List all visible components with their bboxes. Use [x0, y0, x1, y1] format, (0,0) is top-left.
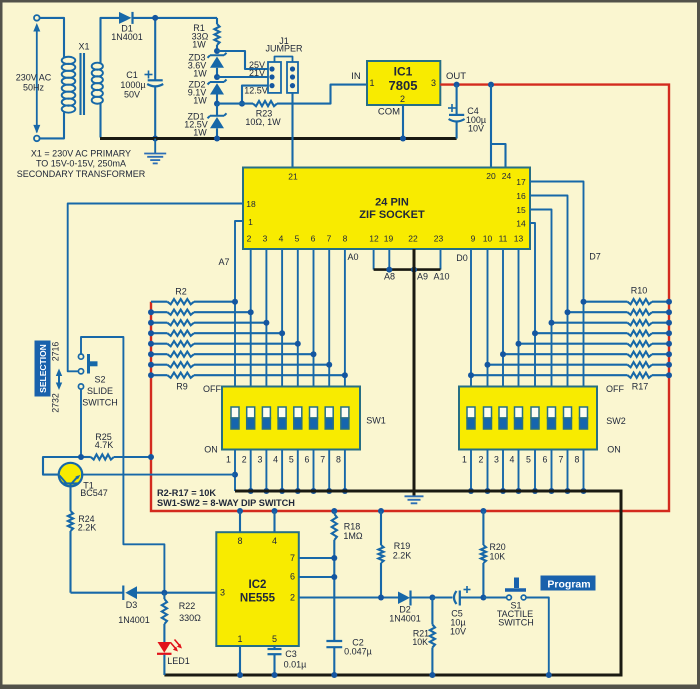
- wire ground rect: [164, 491, 621, 675]
- transistor T1 BC547: [59, 463, 108, 511]
- junction C2 rail: [331, 672, 337, 678]
- svg-text:1N4001: 1N4001: [111, 32, 143, 42]
- resistor R20: [481, 511, 506, 598]
- wire IC2 pin8: [239, 511, 241, 532]
- svg-text:TO 15V-0-15V, 250mA: TO 15V-0-15V, 250mA: [36, 158, 126, 168]
- svg-text:5: 5: [289, 455, 294, 465]
- wire 21V tap: [217, 76, 268, 78]
- svg-text:10: 10: [483, 234, 493, 244]
- wire 25V tap: [217, 51, 268, 69]
- ZIF pin numbers: [246, 171, 526, 244]
- junction C1 bottom: [152, 136, 158, 142]
- label SW1: [366, 416, 386, 426]
- junction 12.5V tap: [239, 101, 245, 107]
- svg-text:R2-R17 = 10K: R2-R17 = 10K: [157, 488, 216, 498]
- capacitor C2: [326, 638, 371, 676]
- capacitor C1: [120, 18, 163, 139]
- junction A9: [411, 267, 417, 273]
- svg-text:6: 6: [305, 455, 310, 465]
- resistor array R10-R17: [471, 299, 669, 378]
- svg-text:1W: 1W: [193, 96, 207, 106]
- svg-text:3: 3: [220, 588, 225, 598]
- diode D1: [111, 12, 143, 42]
- junction A8: [386, 267, 392, 273]
- wire top terminal to primary: [40, 18, 64, 58]
- transformer X1: [62, 42, 103, 116]
- svg-text:10V: 10V: [468, 124, 484, 134]
- junction S1 rail: [546, 672, 552, 678]
- wire secondary top to D1: [101, 18, 120, 64]
- switch SW2 8-way DIP: [459, 387, 597, 465]
- label 25V: [249, 60, 265, 70]
- junction ZD1 bottom: [214, 136, 220, 142]
- wire ZIF pin23 stub: [440, 249, 442, 270]
- svg-text:16: 16: [516, 191, 526, 201]
- label SELECTION box: [35, 341, 50, 396]
- wire Vcc to ZIF pins 20 24: [491, 85, 506, 168]
- svg-text:5: 5: [295, 234, 300, 244]
- junctions R2-R9 to columns: [232, 299, 348, 379]
- wire ZIF pin19 stub: [388, 249, 390, 270]
- svg-text:7: 7: [320, 455, 325, 465]
- svg-text:4: 4: [510, 455, 515, 465]
- diode D2: [389, 591, 432, 624]
- svg-text:8: 8: [343, 234, 348, 244]
- label A8: [384, 272, 395, 282]
- svg-text:SW2: SW2: [606, 416, 626, 426]
- resistor R1: [192, 18, 220, 51]
- zener ZD1: [184, 104, 226, 139]
- label ON SW1: [204, 445, 218, 455]
- junctions SW2 rail: [468, 488, 587, 494]
- svg-text:2: 2: [290, 593, 295, 603]
- junction D3 R22: [161, 590, 167, 596]
- label R2-R17 note: [157, 488, 216, 498]
- resistor array R2-R9: [151, 299, 345, 378]
- svg-text:IN: IN: [351, 71, 361, 82]
- svg-text:7: 7: [327, 234, 332, 244]
- wire D1 to R1: [133, 17, 218, 19]
- svg-text:3: 3: [431, 78, 436, 88]
- resistor R25: [43, 432, 151, 475]
- svg-text:8: 8: [575, 455, 580, 465]
- selection arrow: [56, 369, 62, 391]
- label SW2: [606, 416, 626, 426]
- wire J1 to ZIF pin 21: [291, 93, 293, 168]
- svg-text:9: 9: [471, 234, 476, 244]
- jumper J1: [265, 36, 303, 93]
- wire IC2 pin6: [299, 576, 335, 578]
- wire ZIF pin12 stub: [373, 249, 375, 270]
- junctions red rail: [237, 508, 486, 514]
- regulator IC1 7805: [351, 61, 466, 118]
- switch SW1 8-way DIP: [222, 387, 360, 465]
- svg-text:R20: R20: [490, 542, 506, 552]
- resistor R23: [217, 85, 367, 127]
- svg-text:JUMPER: JUMPER: [265, 44, 303, 54]
- diode D3: [71, 586, 217, 626]
- svg-text:LED1: LED1: [167, 656, 190, 666]
- label SW note: [157, 498, 295, 508]
- label D0: [456, 253, 468, 263]
- svg-text:A7: A7: [218, 257, 229, 267]
- capacitor C4: [448, 85, 486, 139]
- svg-text:2716: 2716: [51, 342, 61, 362]
- svg-text:50V: 50V: [124, 90, 140, 100]
- svg-text:3: 3: [263, 234, 268, 244]
- svg-text:10V: 10V: [450, 627, 466, 637]
- resistor R24: [68, 511, 96, 593]
- wire T1 emitter: [81, 474, 235, 476]
- svg-text:ZIF SOCKET: ZIF SOCKET: [359, 209, 425, 221]
- svg-text:A10: A10: [433, 272, 449, 282]
- svg-text:20: 20: [486, 171, 496, 181]
- svg-text:D3: D3: [126, 600, 138, 610]
- svg-text:R19: R19: [394, 541, 411, 551]
- wire data columns bottom pins: [471, 249, 519, 387]
- svg-text:3: 3: [257, 455, 262, 465]
- svg-text:R18: R18: [344, 522, 361, 532]
- svg-text:24: 24: [502, 171, 512, 181]
- wire Vcc red net: [151, 85, 669, 511]
- svg-text:7: 7: [290, 553, 295, 563]
- svg-text:1W: 1W: [193, 128, 207, 138]
- junction R25 red rail: [148, 454, 154, 460]
- svg-text:11: 11: [499, 234, 508, 244]
- wire S2 top to D3 junction: [81, 337, 164, 593]
- wire 0V rail upper: [100, 137, 457, 140]
- svg-text:13: 13: [514, 234, 524, 244]
- switch S2 slide: [78, 354, 117, 408]
- ground pin22: [405, 496, 424, 503]
- svg-text:2.2K: 2.2K: [393, 551, 412, 561]
- junction R1 bottom: [214, 48, 220, 54]
- svg-text:23: 23: [434, 234, 444, 244]
- svg-text:1000µ: 1000µ: [120, 80, 145, 90]
- junction ZD2 ZD1: [214, 101, 220, 107]
- 230V AC mains arrow: [16, 23, 52, 133]
- label R2: [175, 287, 187, 297]
- junction pin7 R18: [331, 555, 337, 561]
- label 21V: [249, 68, 265, 78]
- svg-text:15: 15: [516, 205, 526, 215]
- label Program box: [541, 576, 595, 591]
- label R17: [632, 382, 649, 392]
- svg-text:NE555: NE555: [240, 593, 276, 605]
- svg-text:1N4001: 1N4001: [389, 614, 421, 624]
- wire ZIF pin1 to A7 column: [235, 221, 243, 302]
- led LED1: [157, 640, 190, 676]
- svg-text:Program: Program: [547, 579, 590, 591]
- svg-text:SWITCH: SWITCH: [82, 398, 118, 408]
- junction R20 pin2: [480, 595, 486, 601]
- svg-text:SLIDE: SLIDE: [87, 386, 113, 396]
- junction OUT ZIF supply: [488, 82, 494, 88]
- svg-text:R9: R9: [176, 382, 188, 392]
- svg-text:3: 3: [494, 455, 499, 465]
- svg-text:ON: ON: [204, 445, 218, 455]
- svg-text:X1: X1: [78, 42, 89, 52]
- wire IC2 pin2 row: [299, 596, 398, 598]
- svg-text:10K: 10K: [412, 637, 428, 647]
- svg-text:1: 1: [237, 634, 242, 644]
- svg-text:0.01µ: 0.01µ: [284, 660, 307, 670]
- svg-text:D0: D0: [456, 253, 468, 263]
- ground under C1: [144, 139, 166, 164]
- svg-text:18: 18: [246, 199, 256, 209]
- svg-text:5: 5: [272, 634, 277, 644]
- junction R21 rail: [429, 672, 435, 678]
- svg-text:8: 8: [336, 455, 341, 465]
- svg-text:OFF: OFF: [203, 384, 221, 394]
- svg-text:A0: A0: [347, 252, 358, 262]
- wire ZIF pin15 route: [530, 210, 552, 387]
- label 2732: [51, 393, 61, 413]
- wire IC2 pin1: [239, 646, 241, 675]
- junction COM rail: [400, 136, 406, 142]
- svg-text:19: 19: [384, 234, 394, 244]
- svg-text:6: 6: [311, 234, 316, 244]
- capacitor C3: [268, 646, 307, 675]
- junction D2 R21: [429, 595, 435, 601]
- svg-text:5: 5: [526, 455, 531, 465]
- label A10: [433, 272, 449, 282]
- label 2716: [51, 342, 61, 362]
- svg-text:10Ω, 1W: 10Ω, 1W: [245, 117, 281, 127]
- svg-text:BC547: BC547: [80, 488, 108, 498]
- svg-text:2: 2: [400, 94, 405, 104]
- svg-text:50Hz: 50Hz: [23, 83, 45, 93]
- wire IC2 pin4: [273, 511, 275, 532]
- svg-text:6: 6: [290, 572, 295, 582]
- resistor R18: [332, 511, 363, 641]
- label OFF SW1: [203, 384, 221, 394]
- wire ZIF pin16 route: [530, 196, 568, 387]
- wire SW2 bottom stubs: [471, 450, 584, 492]
- label A9: [417, 272, 428, 282]
- svg-text:C1: C1: [126, 70, 138, 80]
- ic ZIF socket: [243, 168, 530, 250]
- node AC input terminal top: [34, 15, 40, 21]
- wire ZIF pin22 to ground: [413, 249, 416, 496]
- svg-text:D7: D7: [589, 252, 601, 262]
- zener ZD2: [188, 80, 227, 106]
- wire ZIF pin17 route: [530, 182, 584, 387]
- svg-text:7: 7: [559, 455, 564, 465]
- svg-text:X1 = 230V AC PRIMARY: X1 = 230V AC PRIMARY: [31, 148, 131, 158]
- svg-text:4: 4: [272, 536, 277, 546]
- junctions SW1 rail: [248, 488, 348, 494]
- label D7: [589, 252, 601, 262]
- wire address columns: [251, 249, 345, 375]
- junction C3 rail: [272, 672, 278, 678]
- junction R19 pin2: [378, 595, 384, 601]
- label 12.5V: [244, 86, 268, 96]
- wire A8 A9 A10 bracket: [374, 268, 441, 271]
- svg-text:24 PIN: 24 PIN: [375, 197, 409, 209]
- svg-text:230V AC: 230V AC: [16, 73, 52, 83]
- wire COM to 0V rail: [402, 105, 404, 139]
- svg-text:A8: A8: [384, 272, 395, 282]
- junction pin1 rail: [237, 672, 243, 678]
- capacitor C5: [432, 586, 483, 637]
- label ON SW2: [607, 445, 621, 455]
- junction pin6 R18: [331, 574, 337, 580]
- svg-text:2: 2: [247, 234, 252, 244]
- label OFF SW2: [606, 384, 624, 394]
- svg-text:2.2K: 2.2K: [78, 523, 97, 533]
- label A0: [347, 252, 358, 262]
- wire bottom terminal to primary: [40, 113, 64, 139]
- svg-text:4.7K: 4.7K: [95, 440, 114, 450]
- svg-text:2: 2: [479, 455, 484, 465]
- svg-text:12: 12: [369, 234, 379, 244]
- svg-text:R10: R10: [631, 286, 648, 296]
- junction T1 emitter column: [232, 472, 238, 478]
- resistor R21: [412, 598, 435, 676]
- svg-text:SWITCH: SWITCH: [498, 618, 534, 628]
- svg-text:S2: S2: [94, 375, 105, 385]
- svg-text:0.047µ: 0.047µ: [344, 647, 372, 657]
- junction C1 top: [152, 15, 158, 21]
- label R9: [176, 382, 188, 392]
- svg-text:1MΩ: 1MΩ: [343, 531, 363, 541]
- svg-text:ON: ON: [607, 445, 621, 455]
- svg-text:1N4001: 1N4001: [118, 615, 150, 625]
- svg-text:2732: 2732: [51, 393, 61, 413]
- wire S2 bottom to R25: [80, 389, 82, 457]
- svg-text:R22: R22: [179, 601, 196, 611]
- svg-text:IC1: IC1: [394, 65, 413, 79]
- junction R25 S2: [78, 454, 84, 460]
- svg-text:2: 2: [242, 455, 247, 465]
- switch S1 tactile: [483, 578, 533, 628]
- svg-text:10K: 10K: [490, 552, 506, 562]
- label transformer spec: [17, 148, 146, 179]
- svg-text:A9: A9: [417, 272, 428, 282]
- svg-text:1W: 1W: [192, 40, 206, 50]
- wire address columns to SW1: [235, 302, 345, 387]
- svg-text:1: 1: [462, 455, 467, 465]
- wire SW1 column1 stub: [234, 450, 236, 492]
- wire ZIF pin18 to S2: [68, 204, 243, 372]
- svg-text:R2: R2: [175, 287, 187, 297]
- wire 12.5V tap: [242, 86, 268, 104]
- svg-text:1: 1: [248, 217, 253, 227]
- svg-text:1: 1: [369, 78, 374, 88]
- svg-text:17: 17: [516, 177, 526, 187]
- svg-text:1W: 1W: [193, 69, 207, 79]
- label A7: [218, 257, 229, 267]
- svg-text:SELECTION: SELECTION: [38, 344, 48, 393]
- wire ZIF pin14 route: [530, 223, 535, 387]
- svg-text:12.5V: 12.5V: [244, 86, 268, 96]
- junction ZD3 ZD2: [214, 74, 220, 80]
- svg-text:7805: 7805: [389, 78, 418, 93]
- svg-text:R17: R17: [632, 382, 649, 392]
- zener ZD3: [188, 53, 227, 79]
- resistor R22: [162, 593, 201, 642]
- junction OUT C4: [454, 82, 460, 88]
- svg-text:4: 4: [279, 234, 284, 244]
- svg-text:6: 6: [543, 455, 548, 465]
- svg-text:COM: COM: [378, 107, 400, 118]
- svg-text:8: 8: [237, 536, 242, 546]
- resistor R19: [378, 511, 411, 598]
- svg-text:SW1: SW1: [366, 416, 386, 426]
- svg-text:C3: C3: [285, 649, 297, 659]
- label R10: [631, 286, 648, 296]
- svg-text:330Ω: 330Ω: [179, 613, 201, 623]
- junctions R10-R17 taps: [468, 299, 587, 379]
- svg-text:22: 22: [408, 234, 418, 244]
- svg-text:4: 4: [273, 455, 278, 465]
- svg-text:SW1-SW2 = 8-WAY DIP SWITCH: SW1-SW2 = 8-WAY DIP SWITCH: [157, 498, 295, 508]
- svg-text:OUT: OUT: [446, 71, 466, 82]
- svg-text:1: 1: [226, 455, 231, 465]
- wire SW1 bottom stubs: [251, 450, 345, 492]
- wire IC2 pin7: [299, 557, 335, 559]
- node AC input terminal bottom: [34, 136, 40, 142]
- svg-text:14: 14: [516, 219, 526, 229]
- svg-text:OFF: OFF: [606, 384, 624, 394]
- junctions R10-R17 red rail: [666, 299, 672, 379]
- junctions R3-R9 red rail: [148, 309, 154, 378]
- svg-text:21: 21: [288, 172, 298, 182]
- wire secondary bottom to 0V rail: [99, 103, 101, 137]
- svg-text:IC2: IC2: [249, 579, 267, 591]
- ic IC2 NE555: [216, 532, 298, 646]
- wire S1 to rail: [526, 598, 549, 676]
- svg-text:SECONDARY TRANSFORMER: SECONDARY TRANSFORMER: [17, 169, 146, 179]
- svg-text:21V: 21V: [249, 68, 265, 78]
